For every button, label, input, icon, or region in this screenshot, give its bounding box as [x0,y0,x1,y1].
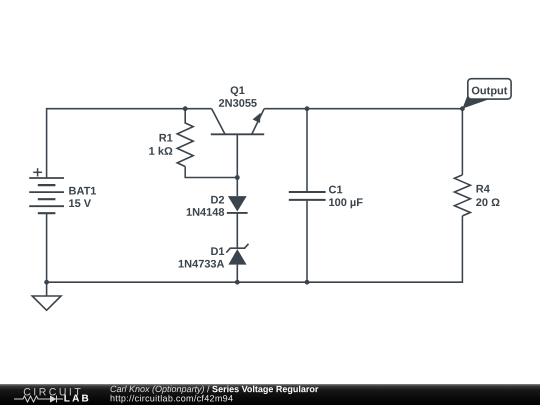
output flag [462,79,511,109]
svg-text:BAT1: BAT1 [68,186,96,198]
svg-text:D2: D2 [210,194,224,206]
ground [32,282,61,310]
node: ground junction [44,280,49,285]
resistor R1 [177,109,193,167]
wire: C1 top lead [306,109,308,192]
logo resistor squiggle [14,396,63,403]
capacitor C1 [289,192,326,200]
wire: top rail right (Q1 emitter to output node, down to R4) [264,109,462,175]
footer logo and credits [0,384,540,405]
zener diode D1 [226,244,248,282]
node: R1 top junction [183,106,188,111]
battery BAT1 [29,178,64,213]
svg-text:Q1: Q1 [230,85,245,97]
node: base junction [235,175,240,180]
svg-text:D1: D1 [210,246,224,258]
node: output junction [460,106,465,111]
wire: battery positive to top rail (to Q1 collector) [47,109,212,178]
node: D1 bottom junction [235,280,240,285]
svg-text:Output: Output [471,85,507,97]
svg-text:1N4733A: 1N4733A [178,258,225,270]
transistor Q1 [211,109,264,178]
svg-text:http://circuitlab.com/cf42m94: http://circuitlab.com/cf42m94 [110,393,233,403]
svg-text:R4: R4 [476,184,491,196]
resistor R4 [454,175,470,216]
diode D2 [227,178,248,249]
wire: C1 bottom lead [306,201,308,282]
svg-text:20 Ω: 20 Ω [476,197,500,209]
svg-text:100 µF: 100 µF [328,197,363,209]
node: C1 bottom junction [305,280,310,285]
node: C1 top junction [305,106,310,111]
logo diode [50,396,57,403]
wire: R4 bottom to bottom rail [47,216,463,282]
transistor Q1 emitter arrow [253,113,261,123]
svg-text:C1: C1 [328,184,342,196]
svg-text:1 kΩ: 1 kΩ [149,146,173,158]
footer bar [0,384,540,405]
svg-text:LAB: LAB [64,394,91,405]
wire: R1 bottom to base node [185,167,237,178]
svg-text:15 V: 15 V [68,198,91,210]
wire: battery negative down to ground node [46,213,48,282]
svg-text:1N4148: 1N4148 [186,207,225,219]
svg-text:R1: R1 [159,132,173,144]
battery plus sign [33,168,42,176]
svg-text:2N3055: 2N3055 [219,98,258,110]
